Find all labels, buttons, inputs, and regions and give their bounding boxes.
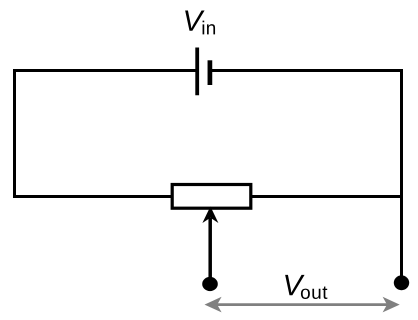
- node: right output terminal dot: [394, 275, 409, 290]
- label Vout: V (italic): [285, 275, 304, 295]
- wire bottom: [13, 195, 403, 198]
- node: wiper output terminal dot: [202, 277, 218, 291]
- potentiometer wiper arrow shaft: [208, 218, 212, 283]
- wire top-right segment: [210, 69, 403, 72]
- Vout measurement left arrowhead: [205, 297, 222, 313]
- label Vin: V (italic): [185, 11, 204, 31]
- wire top-left segment: [13, 69, 197, 72]
- label Vin: subscript in: [203, 21, 215, 35]
- Vout measurement right arrowhead: [383, 297, 400, 313]
- Vout measurement arrow shaft: [216, 303, 388, 306]
- wire left side: [13, 69, 16, 198]
- potentiometer R1 body: [172, 185, 251, 209]
- wire right side: [400, 69, 403, 283]
- battery V1 short plate: [208, 60, 213, 85]
- battery V1 long plate: [195, 48, 199, 96]
- potentiometer wiper arrowhead: [202, 206, 218, 223]
- label Vout: subscript out: [301, 287, 327, 299]
